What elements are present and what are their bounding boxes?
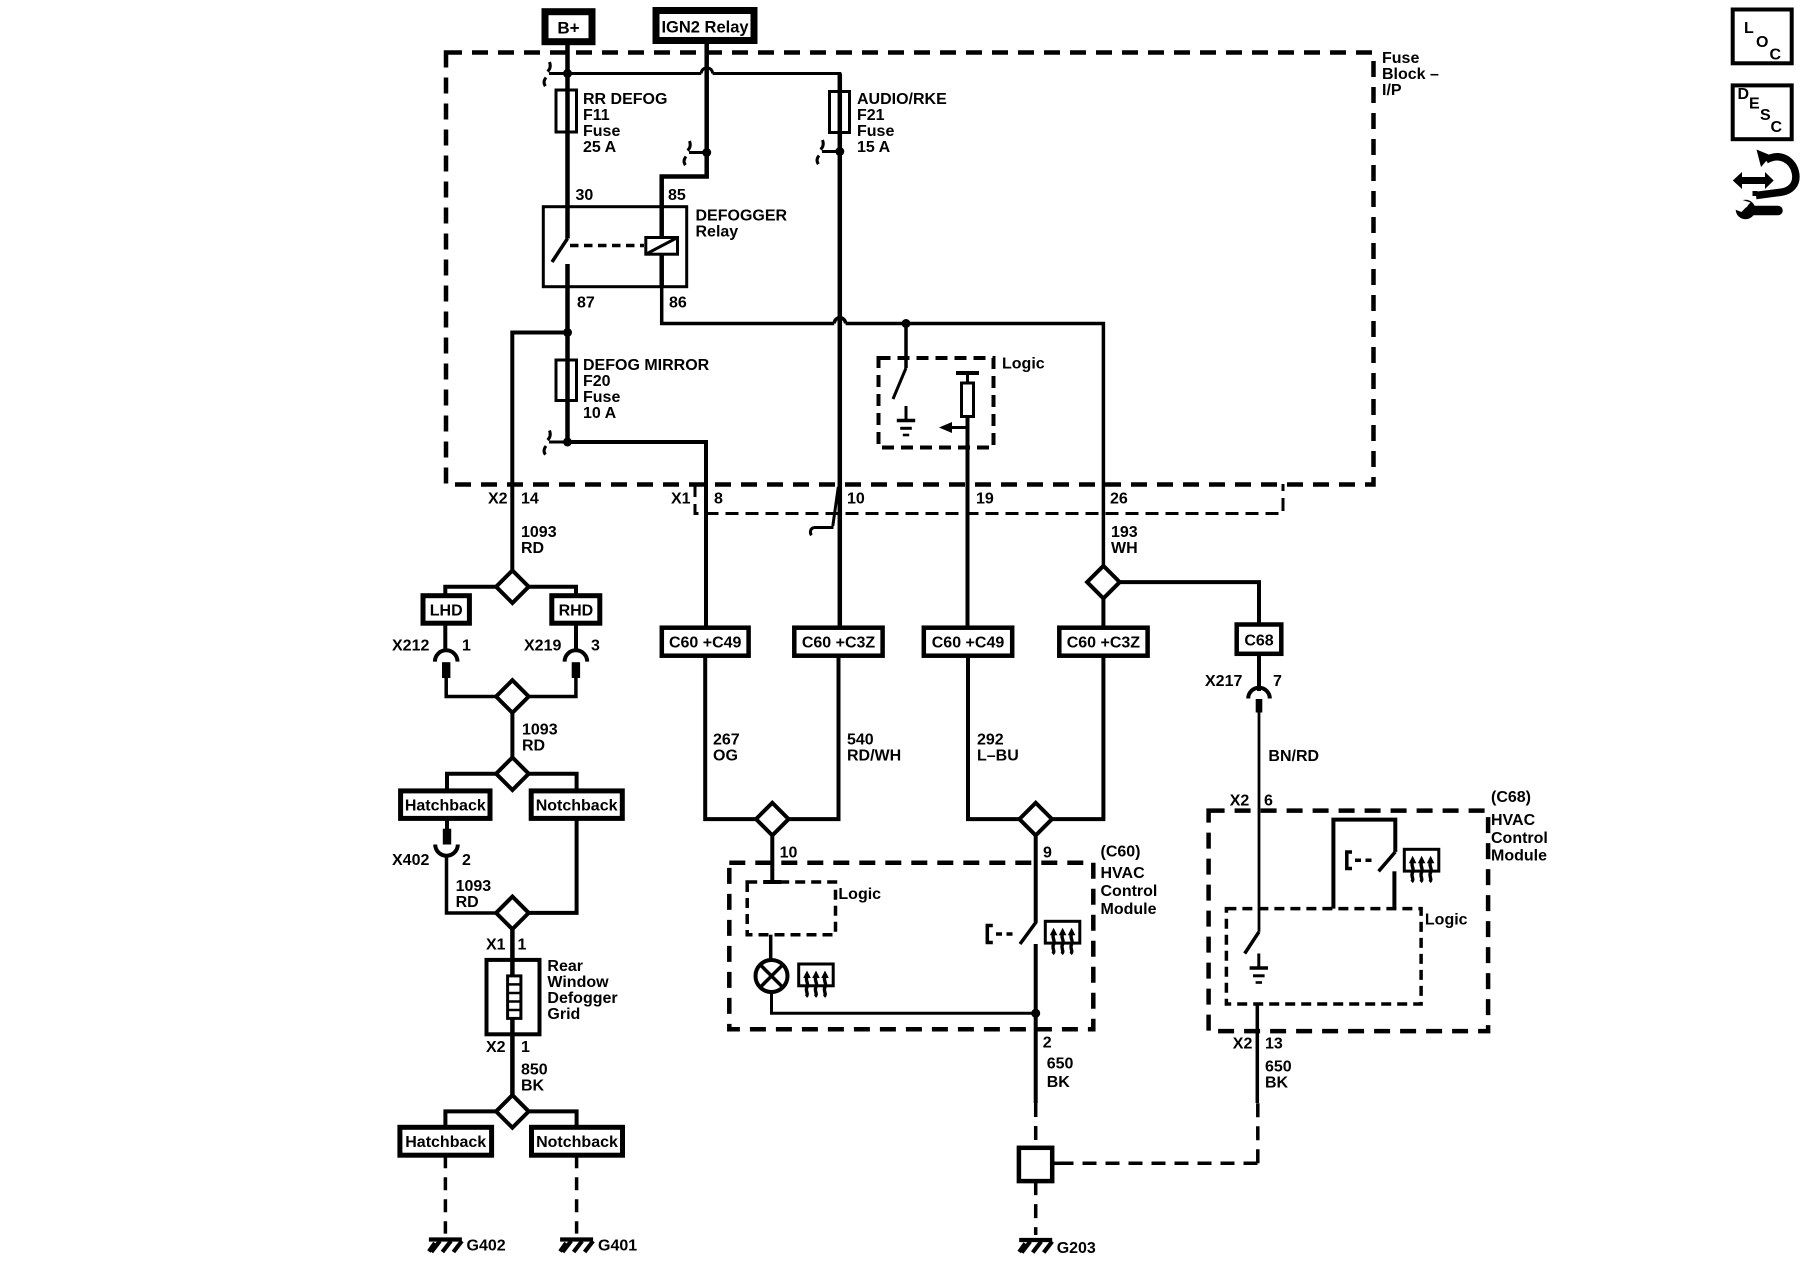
svg-text:WH: WH — [1111, 540, 1138, 557]
svg-text:RR DEFOG: RR DEFOG — [583, 91, 667, 108]
svg-text:RD: RD — [456, 894, 479, 911]
svg-text:C60 +C3Z: C60 +C3Z — [1067, 635, 1141, 652]
svg-text:X2: X2 — [486, 1039, 506, 1056]
svg-text:BK: BK — [1265, 1075, 1289, 1092]
svg-text:14: 14 — [521, 491, 539, 508]
svg-text:3: 3 — [591, 638, 600, 655]
svg-text:7: 7 — [1273, 673, 1282, 690]
svg-text:AUDIO/RKE: AUDIO/RKE — [857, 91, 947, 108]
svg-text:9: 9 — [1043, 845, 1052, 862]
svg-text:Notchback: Notchback — [536, 1134, 618, 1151]
svg-text:L: L — [1744, 20, 1754, 37]
svg-text:267: 267 — [713, 732, 740, 749]
svg-text:C60 +C49: C60 +C49 — [932, 635, 1005, 652]
svg-text:Logic: Logic — [838, 886, 881, 903]
svg-text:10: 10 — [780, 845, 798, 862]
svg-text:Grid: Grid — [547, 1006, 580, 1023]
svg-text:850: 850 — [521, 1062, 548, 1079]
svg-text:LHD: LHD — [430, 603, 463, 620]
svg-text:G402: G402 — [467, 1238, 506, 1255]
svg-text:BN/RD: BN/RD — [1268, 748, 1319, 765]
svg-text:193: 193 — [1111, 524, 1138, 541]
svg-text:Logic: Logic — [1425, 912, 1468, 929]
svg-text:X2: X2 — [1233, 1036, 1253, 1053]
svg-text:E: E — [1749, 96, 1760, 113]
svg-text:C: C — [1771, 119, 1783, 136]
svg-text:DEFOG MIRROR: DEFOG MIRROR — [583, 357, 710, 374]
svg-text:6: 6 — [1264, 793, 1273, 810]
svg-text:1093: 1093 — [456, 878, 492, 895]
svg-text:1093: 1093 — [521, 524, 557, 541]
svg-text:X1: X1 — [671, 491, 691, 508]
svg-text:Fuse: Fuse — [583, 123, 620, 140]
svg-text:8: 8 — [714, 491, 723, 508]
svg-text:Block –: Block – — [1382, 66, 1439, 83]
svg-text:S: S — [1760, 107, 1771, 124]
svg-text:Rear: Rear — [547, 958, 583, 975]
svg-text:C68: C68 — [1244, 633, 1273, 650]
svg-text:X1: X1 — [486, 937, 506, 954]
svg-text:85: 85 — [668, 187, 686, 204]
svg-text:DEFOGGER: DEFOGGER — [696, 208, 788, 225]
svg-text:B+: B+ — [557, 19, 579, 38]
svg-text:292: 292 — [977, 732, 1004, 749]
svg-text:86: 86 — [669, 295, 687, 312]
svg-text:Hatchback: Hatchback — [405, 798, 486, 815]
svg-text:X402: X402 — [392, 852, 429, 869]
svg-text:RD: RD — [521, 540, 544, 557]
svg-text:26: 26 — [1110, 491, 1128, 508]
svg-text:2: 2 — [1043, 1035, 1052, 1052]
svg-text:Hatchback: Hatchback — [405, 1134, 486, 1151]
svg-text:Logic: Logic — [1002, 356, 1045, 373]
svg-text:25 A: 25 A — [583, 139, 617, 156]
svg-text:1: 1 — [518, 937, 527, 954]
svg-text:C60 +C3Z: C60 +C3Z — [802, 635, 876, 652]
svg-text:X2: X2 — [488, 491, 508, 508]
svg-text:X219: X219 — [524, 638, 561, 655]
svg-text:Control: Control — [1491, 830, 1548, 847]
svg-text:Module: Module — [1101, 901, 1157, 918]
svg-text:RD/WH: RD/WH — [847, 748, 901, 765]
svg-text:OG: OG — [713, 748, 738, 765]
svg-text:650: 650 — [1047, 1056, 1074, 1073]
svg-text:Fuse: Fuse — [1382, 50, 1419, 67]
svg-text:F20: F20 — [583, 373, 611, 390]
svg-text:RD: RD — [522, 738, 545, 755]
svg-text:1: 1 — [462, 638, 471, 655]
svg-text:IGN2 Relay: IGN2 Relay — [661, 19, 749, 37]
svg-text:X212: X212 — [392, 638, 429, 655]
svg-text:RHD: RHD — [559, 603, 594, 620]
svg-text:X2: X2 — [1230, 793, 1250, 810]
svg-text:G401: G401 — [598, 1238, 637, 1255]
svg-text:F11: F11 — [583, 107, 610, 124]
svg-text:(C60): (C60) — [1101, 844, 1141, 861]
svg-text:540: 540 — [847, 732, 874, 749]
svg-text:L–BU: L–BU — [977, 748, 1019, 765]
svg-text:10: 10 — [847, 491, 865, 508]
svg-text:BK: BK — [521, 1078, 545, 1095]
svg-text:X217: X217 — [1205, 673, 1242, 690]
svg-text:C60 +C49: C60 +C49 — [669, 635, 742, 652]
svg-text:Notchback: Notchback — [536, 798, 618, 815]
svg-text:30: 30 — [576, 187, 594, 204]
svg-text:13: 13 — [1265, 1036, 1283, 1053]
svg-text:Control: Control — [1101, 883, 1158, 900]
svg-text:Window: Window — [547, 974, 609, 991]
svg-text:19: 19 — [976, 491, 994, 508]
svg-text:Fuse: Fuse — [583, 389, 620, 406]
svg-text:(C68): (C68) — [1491, 789, 1531, 806]
svg-text:Relay: Relay — [696, 224, 739, 241]
svg-text:1: 1 — [521, 1039, 530, 1056]
svg-text:1093: 1093 — [522, 722, 558, 739]
svg-text:Module: Module — [1491, 848, 1547, 865]
svg-text:87: 87 — [577, 295, 595, 312]
svg-text:HVAC: HVAC — [1491, 812, 1536, 829]
svg-text:I/P: I/P — [1382, 82, 1402, 99]
svg-text:Defogger: Defogger — [547, 990, 617, 1007]
svg-text:15 A: 15 A — [857, 139, 891, 156]
svg-text:2: 2 — [462, 852, 471, 869]
svg-text:C: C — [1770, 47, 1782, 64]
svg-text:G203: G203 — [1057, 1240, 1096, 1257]
svg-text:Fuse: Fuse — [857, 123, 894, 140]
svg-text:10 A: 10 A — [583, 405, 617, 422]
svg-text:BK: BK — [1047, 1074, 1071, 1091]
svg-text:O: O — [1756, 34, 1768, 51]
svg-text:F21: F21 — [857, 107, 885, 124]
svg-text:D: D — [1738, 86, 1750, 103]
svg-text:650: 650 — [1265, 1059, 1292, 1076]
svg-text:HVAC: HVAC — [1101, 865, 1146, 882]
